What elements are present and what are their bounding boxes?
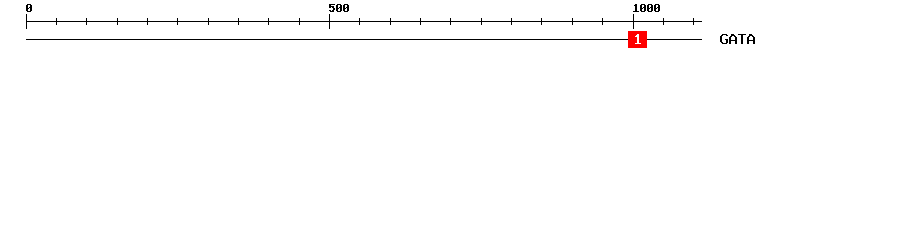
sequence feature map: ruler + sequence line + GATA motif hit: [0, 0, 900, 58]
major tick 500: [329, 14, 330, 29]
scale label 0: [27, 4, 31, 5]
feature box (motif hit): [628, 31, 647, 48]
scale label 500: [329, 4, 335, 5]
track label GATA: [722, 34, 727, 35]
major tick 1000: [633, 14, 634, 29]
sequence line: [26, 39, 702, 40]
minor ticks: [56, 18, 57, 25]
feature number 1: [637, 34, 639, 35]
major tick 0: [26, 14, 27, 29]
ruler axis line: [26, 21, 702, 22]
scale label 1000: [635, 4, 637, 5]
